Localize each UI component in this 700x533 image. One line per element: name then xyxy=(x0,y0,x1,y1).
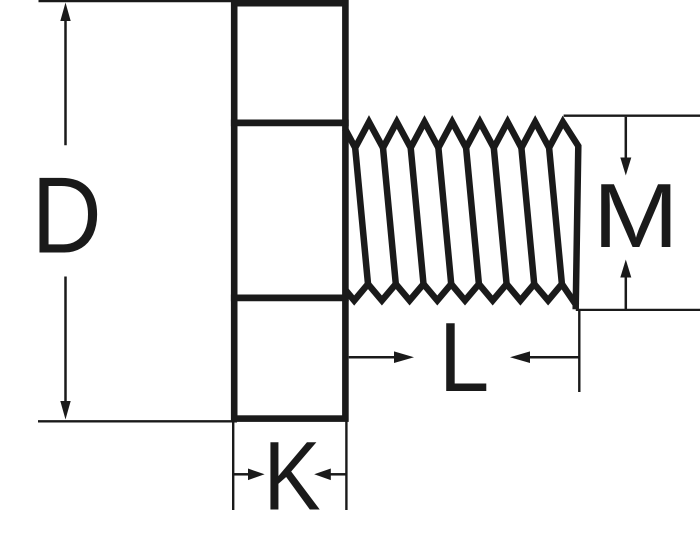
dimension D upper arrow shaft xyxy=(64,21,67,146)
bolt head outline xyxy=(234,3,345,418)
svg-text:D: D xyxy=(32,155,102,276)
dimension M bottom extension line xyxy=(576,309,700,311)
dimension L right extension line xyxy=(578,310,580,392)
dimension L right arrow shaft xyxy=(529,356,579,359)
dimension M lower arrowhead xyxy=(620,260,631,278)
thread flank line 7 xyxy=(521,148,534,284)
dimension K left extension line xyxy=(232,419,234,510)
dimension K right extension line xyxy=(345,419,347,510)
svg-text:L: L xyxy=(439,303,490,413)
dimension M upper arrowhead xyxy=(620,158,631,176)
dimension L left arrowhead xyxy=(394,351,414,363)
thread flank line 2 xyxy=(383,148,396,284)
thread flank line 3 xyxy=(411,148,424,284)
dimension D lower arrow shaft xyxy=(64,277,67,402)
svg-text:M: M xyxy=(593,165,679,267)
dimension D upper arrowhead xyxy=(60,3,70,22)
thread top crest zigzag and shank end edge xyxy=(345,122,578,309)
thread flank line 4 xyxy=(438,148,451,284)
dimension L right arrowhead xyxy=(510,351,530,363)
dimension D lower arrowhead xyxy=(60,401,70,420)
bolt head hex facet line lower xyxy=(231,295,349,302)
thread bottom crest zigzag xyxy=(345,284,577,306)
bolt head hex facet line upper xyxy=(231,120,349,127)
thread flank line 8 xyxy=(549,148,562,284)
dimension M top extension line xyxy=(564,115,700,117)
dimension M lower arrow shaft xyxy=(625,278,628,310)
dimension K left arrowhead xyxy=(248,469,265,481)
dimension K right arrowhead xyxy=(314,469,331,481)
dimension L left arrow shaft xyxy=(349,356,395,359)
svg-text:K: K xyxy=(263,421,320,530)
dimension M upper arrow shaft xyxy=(625,117,628,158)
thread flank line 5 xyxy=(466,148,479,284)
thread flank line 6 xyxy=(494,148,507,284)
dimension D top extension line xyxy=(39,0,238,2)
dimension K left arrow shaft xyxy=(234,473,249,476)
dimension K right arrow shaft xyxy=(330,473,346,476)
dimension D bottom extension line xyxy=(38,420,237,422)
thread flank line 1 xyxy=(355,148,368,284)
